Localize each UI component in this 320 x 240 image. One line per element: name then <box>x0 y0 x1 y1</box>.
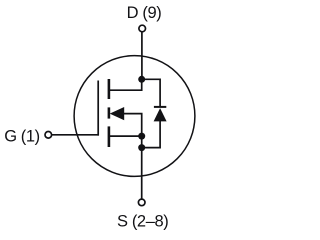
wire: drain lead from pin D to drain node <box>141 32 143 79</box>
gate electrode <box>97 81 99 136</box>
wire: gate lead from pin G to gate electrode <box>52 134 100 136</box>
wire: drain node to diode cathode <box>142 79 160 107</box>
MOSFET envelope circle <box>74 56 195 177</box>
junction dot: drain node <box>138 76 145 83</box>
pin D terminal circle <box>139 25 146 32</box>
wire: diode anode to source node <box>142 121 160 148</box>
svg-text:D (9): D (9) <box>127 4 162 22</box>
svg-text:G (1): G (1) <box>4 127 40 145</box>
body arrow (substrate arrow) <box>110 107 125 120</box>
junction dot: source/body node <box>138 133 145 140</box>
body diode cathode bar <box>154 106 166 108</box>
junction dot: source/diode-anode node <box>138 144 145 151</box>
channel bar (drain segment) <box>108 79 111 99</box>
channel bar (body segment) <box>108 107 111 118</box>
wire: channel source bar to source node <box>109 135 142 137</box>
body diode triangle (anode) <box>154 108 167 121</box>
wire: body arrow to source node <box>124 114 142 134</box>
wire: drain node to channel top bar <box>109 79 142 90</box>
wire: source lead down to pin S <box>141 136 143 199</box>
channel bar (source segment) <box>108 126 111 147</box>
pin S terminal circle <box>138 199 145 206</box>
pin G terminal circle <box>45 132 52 139</box>
svg-text:S (2–8): S (2–8) <box>117 212 168 230</box>
